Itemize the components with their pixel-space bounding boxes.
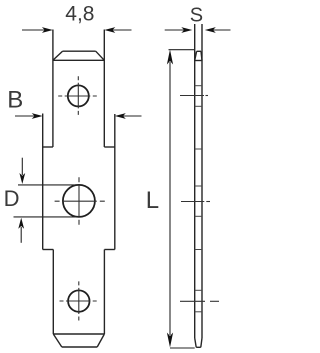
svg-text:4,8: 4,8 (65, 2, 94, 25)
svg-text:D: D (4, 186, 20, 211)
svg-text:B: B (7, 87, 23, 114)
svg-text:S: S (190, 5, 203, 27)
svg-text:L: L (146, 187, 159, 214)
